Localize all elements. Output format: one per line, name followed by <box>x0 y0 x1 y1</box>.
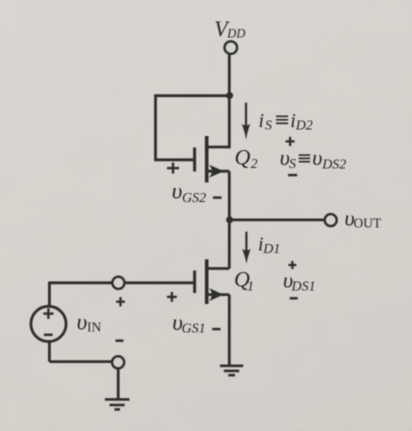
svg-text:D1: D1 <box>262 242 280 257</box>
svg-text:IN: IN <box>87 320 101 335</box>
svg-text:D2: D2 <box>295 119 313 134</box>
svg-text:GS2: GS2 <box>182 191 206 206</box>
svg-text:i: i <box>259 110 265 132</box>
svg-text:2: 2 <box>251 156 258 171</box>
svg-text:υ: υ <box>172 179 183 204</box>
svg-text:S: S <box>289 157 296 172</box>
svg-text:DS2: DS2 <box>321 158 346 173</box>
svg-text:GS1: GS1 <box>182 322 206 337</box>
svg-text:DD: DD <box>226 26 245 40</box>
svg-text:OUT: OUT <box>354 215 382 230</box>
svg-text:Q: Q <box>235 145 251 170</box>
svg-text:DS1: DS1 <box>291 279 316 294</box>
svg-text:S: S <box>265 119 272 134</box>
svg-text:υ: υ <box>77 310 88 335</box>
svg-text:υ: υ <box>312 145 322 170</box>
svg-text:1: 1 <box>247 279 254 294</box>
